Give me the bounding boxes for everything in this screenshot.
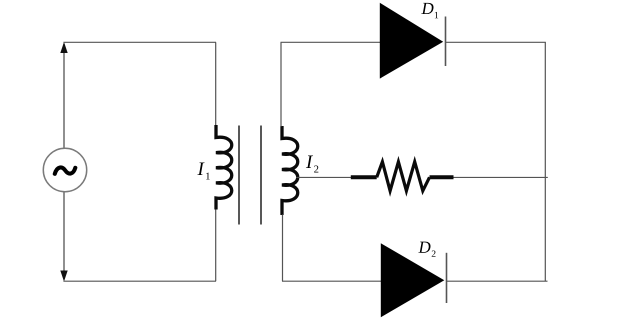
wire: secondary top vertical (280, 42, 282, 126)
wire: resistor to right bus (454, 176, 548, 178)
wire: top branch to D1 (281, 41, 381, 43)
wire: D1 to right bus (446, 41, 546, 43)
wire: bottom branch to D2 (282, 280, 382, 282)
diode D1 triangle (380, 3, 443, 79)
arrow up (top of source loop) (60, 42, 67, 53)
wire: right bus vertical (544, 42, 546, 281)
resistor R right lead (430, 175, 454, 179)
inductor L2 secondary winding (282, 126, 298, 215)
diode D2 cathode bar (446, 253, 448, 303)
wire: left loop left vertical (63, 44, 65, 279)
wire: center tap to resistor (296, 176, 352, 178)
wire: left loop bottom (63, 280, 216, 282)
resistor R zigzag (377, 162, 430, 191)
wire: left loop right vertical upper (215, 42, 217, 126)
resistor R left lead (351, 175, 377, 179)
label D2 (418, 242, 435, 257)
label D1 (421, 3, 438, 18)
inductor L1 primary winding (216, 125, 232, 210)
label I2 (306, 156, 318, 173)
diode D1 cathode bar (445, 17, 447, 67)
label I1 (197, 163, 209, 180)
wire: left loop top (63, 41, 216, 43)
diode D2 triangle (381, 243, 445, 317)
AC source circle (43, 148, 86, 191)
arrow down (bottom of source loop) (60, 271, 67, 282)
wire: secondary bottom vertical (282, 215, 284, 282)
AC source sine symbol (55, 167, 76, 173)
transformer core line left (238, 126, 240, 225)
wire: left loop right vertical lower (215, 210, 217, 282)
transformer core line right (260, 126, 262, 225)
wire: D2 to right bus (447, 280, 548, 282)
